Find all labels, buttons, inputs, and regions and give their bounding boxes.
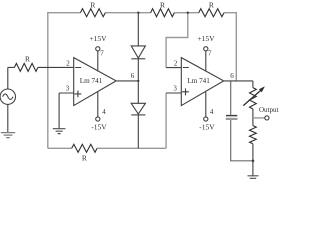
svg-text:Output: Output: [259, 106, 279, 114]
svg-text:6: 6: [230, 72, 234, 80]
svg-text:R: R: [25, 54, 30, 63]
svg-text:6: 6: [131, 72, 135, 80]
svg-text:R: R: [82, 153, 87, 162]
svg-text:3: 3: [173, 85, 177, 93]
svg-text:Lm 741: Lm 741: [187, 77, 210, 85]
svg-text:-15V: -15V: [199, 123, 215, 132]
svg-text:Lm 741: Lm 741: [80, 77, 103, 85]
svg-text:7: 7: [208, 50, 212, 58]
svg-text:R: R: [90, 0, 95, 9]
svg-text:R: R: [160, 0, 165, 9]
svg-text:2: 2: [66, 60, 70, 68]
svg-text:+15V: +15V: [89, 34, 107, 43]
svg-text:R: R: [209, 0, 214, 9]
svg-text:3: 3: [66, 85, 70, 93]
svg-text:2: 2: [174, 60, 178, 68]
svg-text:-15V: -15V: [91, 123, 107, 132]
svg-text:4: 4: [210, 108, 214, 116]
svg-text:+15V: +15V: [197, 34, 215, 43]
svg-text:4: 4: [102, 108, 106, 116]
svg-text:7: 7: [100, 50, 104, 58]
